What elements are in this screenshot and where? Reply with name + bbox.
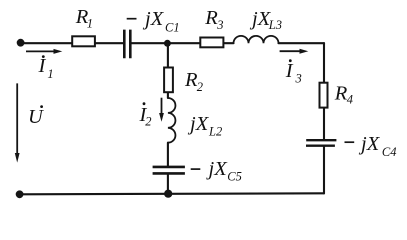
svg-text:R: R [204, 7, 218, 29]
resistor R2 [164, 68, 203, 94]
svg-text:3: 3 [216, 18, 223, 32]
inductor L2 [168, 98, 222, 143]
wire bottom [20, 193, 325, 194]
voltage arrow U [15, 83, 44, 162]
node B (bottom junction of C5 branch) [164, 190, 172, 198]
svg-text:2: 2 [197, 80, 203, 94]
svg-text:4: 4 [347, 92, 353, 106]
svg-text:3: 3 [295, 72, 302, 86]
svg-text:C1: C1 [165, 20, 180, 34]
svg-text:R: R [334, 82, 348, 104]
svg-text:C5: C5 [227, 170, 242, 184]
svg-text:jX: jX [187, 113, 210, 135]
resistor R4 [320, 82, 354, 107]
svg-text:L2: L2 [208, 124, 222, 138]
wire middle branch below C5 [167, 174, 169, 193]
wire: C1 to node A and on to R3/L3 [130, 42, 233, 44]
svg-text:1: 1 [87, 16, 93, 30]
svg-text:1: 1 [47, 67, 53, 81]
capacitor C4 [306, 133, 396, 159]
svg-text:I: I [38, 55, 47, 77]
current arrow I1 [26, 49, 62, 81]
wire right branch lower [323, 147, 325, 194]
svg-text:I: I [285, 60, 294, 82]
capacitor C1 [124, 8, 179, 58]
svg-text:jX: jX [358, 133, 381, 155]
svg-text:L3: L3 [268, 18, 282, 32]
wire middle branch upper [167, 43, 169, 98]
node A (junction of C1, R2, R3) [164, 40, 171, 47]
wire: L3 to top-right corner [279, 42, 325, 44]
resistor R1 [72, 6, 95, 46]
svg-text:jX: jX [142, 8, 165, 30]
terminal node top-left [17, 39, 25, 47]
svg-text:U: U [28, 106, 44, 128]
terminal node bottom-left [16, 190, 24, 198]
wire right branch upper [323, 43, 325, 139]
resistor R3 [200, 7, 223, 47]
capacitor C5 [153, 158, 242, 184]
current arrow I3 [280, 49, 309, 86]
wire top-left: terminal to C1 [21, 42, 125, 44]
inductor L3 [234, 8, 283, 43]
svg-text:2: 2 [145, 114, 151, 128]
svg-text:jX: jX [206, 158, 229, 180]
current arrow I2 [139, 98, 164, 129]
wire middle branch between L2 and C5 [167, 143, 169, 166]
svg-text:C4: C4 [382, 145, 397, 159]
